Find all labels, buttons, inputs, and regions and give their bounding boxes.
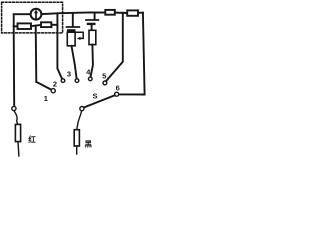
contact 5 xyxy=(103,81,107,85)
wire left branch inside enclosure xyxy=(14,14,31,26)
wire right branch to contact 6 xyxy=(119,13,145,95)
battery B1 short plate xyxy=(68,29,74,31)
wire rheostat to contact 3 xyxy=(72,46,77,79)
contact 3 xyxy=(75,79,79,83)
galvanometer needle arrow xyxy=(35,13,37,19)
black probe body xyxy=(74,130,79,146)
wire drop between R1 R2 down to switch knife pivot xyxy=(35,26,38,82)
svg-text:黑: 黑 xyxy=(84,138,92,148)
wire between R1 and R2 xyxy=(31,25,41,26)
svg-text:5: 5 xyxy=(102,71,106,80)
resistor R3 xyxy=(105,10,115,15)
rheostat wiper arrowhead xyxy=(77,37,81,40)
wire R6 to contact 4 xyxy=(91,45,93,77)
red probe tip wire xyxy=(17,142,20,156)
battery B2 stub to resistor xyxy=(91,25,93,30)
battery B1 stub from top wire xyxy=(72,13,74,26)
svg-text:1: 1 xyxy=(44,94,48,103)
knife end contact circle xyxy=(51,89,55,93)
dashed meter enclosure xyxy=(2,2,63,33)
black probe flexible lead xyxy=(77,111,82,130)
red probe flexible lead xyxy=(14,111,18,125)
contact 6 xyxy=(115,92,119,96)
battery B2 stub from top wire xyxy=(94,13,96,20)
switch knife 1 xyxy=(36,82,51,90)
black probe tip wire xyxy=(76,146,78,154)
wire vertical drop to contact 2 xyxy=(57,13,62,79)
rheostat R5 (zero adjust) xyxy=(67,32,75,46)
resistor R6 xyxy=(89,30,96,44)
svg-text:2: 2 xyxy=(53,80,57,89)
wire R2 to vertical xyxy=(51,24,57,26)
resistor R4 xyxy=(127,10,138,15)
resistor R2 xyxy=(41,22,51,27)
switch S knife xyxy=(84,95,115,107)
battery B1 long plate xyxy=(67,26,80,28)
svg-text:S: S xyxy=(92,92,97,101)
svg-text:红: 红 xyxy=(28,134,36,144)
wire drop to contact 5 xyxy=(106,13,123,81)
battery B2 long plate xyxy=(86,19,98,21)
red probe terminal circle xyxy=(12,106,16,110)
battery B1 stub to rheostat xyxy=(71,30,73,32)
svg-text:6: 6 xyxy=(116,84,120,93)
wire red probe lead from enclosure xyxy=(13,26,16,106)
galvanometer G xyxy=(31,9,42,20)
svg-text:3: 3 xyxy=(67,70,71,79)
switch S pivot circle xyxy=(80,107,84,111)
red probe body xyxy=(15,124,20,141)
top wire from galvanometer to right corner xyxy=(42,12,143,14)
contact 4 xyxy=(89,77,93,81)
battery B2 short plate xyxy=(88,23,94,25)
contact 2 xyxy=(61,79,65,83)
rheostat wiper arm xyxy=(75,32,83,38)
resistor R1 xyxy=(18,23,32,29)
